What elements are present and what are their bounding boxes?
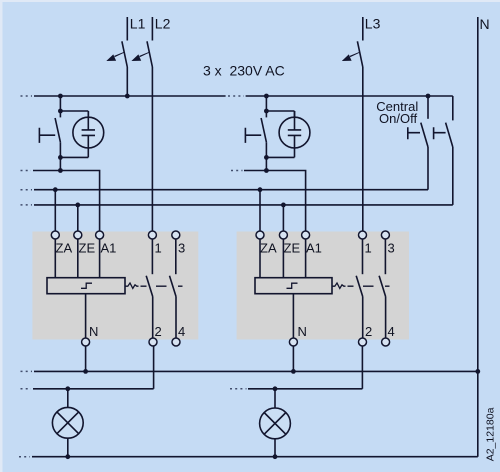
svg-text:On/Off: On/Off bbox=[379, 111, 417, 126]
node ZE right bbox=[281, 203, 286, 208]
central button S3 blade bbox=[421, 123, 428, 147]
switch blade L3 bbox=[357, 41, 362, 67]
wire lamp E2 bottom lead bbox=[274, 439, 276, 457]
node bus/S1 bbox=[58, 94, 63, 99]
lamp E1 bbox=[52, 407, 83, 438]
terminal N right bbox=[289, 338, 297, 346]
terminal wire A1-K1 bbox=[99, 239, 101, 278]
glow lamp H1 bbox=[73, 117, 104, 148]
contact 3-4 right lower bbox=[385, 297, 387, 339]
contact 3-4 right blade bbox=[379, 276, 386, 297]
node lamp E1 bottom bbox=[65, 454, 70, 459]
wire L2 down to terminal 1 bbox=[151, 67, 153, 231]
wire N terminal right to N bus bbox=[292, 346, 294, 371]
node S1 bottom bbox=[58, 155, 63, 160]
wire ZE drop left bbox=[77, 205, 79, 231]
node lamp E2 top bbox=[273, 386, 278, 391]
contact 3-4 left lower bbox=[175, 297, 177, 339]
wire S4 to ZE line bbox=[452, 147, 454, 205]
terminal ZA right bbox=[256, 231, 264, 239]
contact 3-4 right upper bbox=[384, 239, 386, 274]
wire corner bus to central button 2 bbox=[452, 96, 454, 120]
mechanical link K1 bbox=[126, 283, 183, 288]
terminal wire ZA-K1 bbox=[54, 239, 56, 278]
wire lamp E1 bottom lead bbox=[67, 438, 69, 457]
actuation arrow L2 bbox=[131, 52, 149, 61]
pushbutton S1 actuator bbox=[39, 128, 55, 143]
terminal 3 right bbox=[381, 231, 389, 239]
svg-text:A1: A1 bbox=[306, 241, 322, 256]
labels bbox=[130, 15, 490, 78]
wire lamp line left bbox=[33, 388, 154, 390]
wire lamp branch top S1 bbox=[60, 111, 88, 130]
wire N terminal left to N bus bbox=[85, 346, 87, 371]
node ZA left bbox=[53, 187, 58, 192]
svg-text:ZA: ZA bbox=[56, 241, 73, 256]
lamp E1 cross bbox=[57, 412, 79, 434]
terminal 2 left bbox=[149, 338, 157, 346]
node S1/A1 line bbox=[58, 168, 63, 173]
dashes ZE line left bbox=[21, 204, 33, 206]
wire lamp branch bottom S1 bbox=[60, 156, 88, 158]
svg-text:L3: L3 bbox=[365, 15, 381, 31]
terminal 4 left bbox=[172, 338, 180, 346]
terminal 3 left bbox=[172, 231, 180, 239]
terminal wire ZE-K1 bbox=[77, 239, 79, 278]
node bus/S2 bbox=[264, 94, 269, 99]
wire lamp E1 top lead bbox=[67, 389, 69, 408]
coil box K2 bbox=[255, 278, 332, 294]
contact 1-2 right lower bbox=[362, 297, 364, 339]
wire L3 top bbox=[362, 17, 364, 41]
svg-text:ZE: ZE bbox=[284, 241, 301, 256]
terminal ZE right bbox=[279, 231, 287, 239]
node lamp E2 bottom bbox=[273, 454, 278, 459]
wire L1 to bus bbox=[126, 67, 128, 96]
node S1 top bbox=[58, 109, 63, 114]
pushbutton S1 blade bbox=[55, 118, 60, 142]
wire S2 lower bbox=[265, 142, 267, 170]
svg-text:A1: A1 bbox=[101, 241, 117, 256]
wire phase bus segment 1 bbox=[34, 95, 226, 97]
wire ZE line bbox=[34, 204, 453, 206]
node ZA right bbox=[258, 187, 263, 192]
svg-text:2: 2 bbox=[155, 324, 162, 339]
lamp E2 cross bbox=[264, 413, 286, 435]
terminal 1 left bbox=[148, 231, 156, 239]
contact 1-2 right upper bbox=[362, 239, 364, 274]
svg-text:1: 1 bbox=[365, 241, 372, 256]
node bus/L1 bbox=[125, 94, 130, 99]
central button S3 drop bbox=[427, 96, 429, 119]
svg-text:3 x 230V AC: 3 x 230V AC bbox=[203, 63, 285, 79]
wire terminal 2 left drop bbox=[153, 346, 155, 389]
wire lamp return bus bbox=[32, 456, 478, 458]
pushbutton S2 blade bbox=[261, 118, 266, 142]
wire K2 to N terminal bbox=[292, 294, 294, 338]
dashes bus left bbox=[21, 95, 33, 97]
module enclosure M2 (right relay unit) bbox=[237, 232, 409, 340]
contact 1-2 left upper bbox=[151, 239, 153, 274]
dashes A1 line mid bbox=[231, 170, 243, 172]
contact 1-2 left lower bbox=[152, 297, 154, 339]
impulse symbol K1 bbox=[81, 283, 92, 288]
svg-text:N: N bbox=[89, 324, 98, 339]
wire L3 down to terminal 1 bbox=[362, 67, 364, 231]
node N bus left bbox=[83, 369, 88, 374]
node N bus / N line bbox=[475, 369, 480, 374]
svg-text:4: 4 bbox=[388, 324, 395, 339]
svg-text:2: 2 bbox=[365, 324, 372, 339]
lamp E2 bbox=[260, 408, 291, 439]
dashes return bus left bbox=[19, 456, 30, 458]
wire A1 line right bbox=[244, 171, 306, 232]
dashes bus mid bbox=[228, 95, 244, 97]
svg-text:3: 3 bbox=[388, 241, 395, 256]
dashes lamp line left bbox=[21, 388, 32, 390]
svg-text:1: 1 bbox=[155, 241, 162, 256]
wire S3 to ZA line bbox=[427, 147, 429, 190]
svg-text:3: 3 bbox=[178, 241, 185, 256]
wire S1 lower bbox=[59, 142, 61, 170]
wire phase bus segment 2 bbox=[246, 95, 453, 97]
wire A1 line left bbox=[33, 171, 100, 232]
actuation arrow L1 bbox=[106, 52, 124, 61]
node S2 bottom bbox=[264, 155, 269, 160]
impulse symbol K2 bbox=[287, 283, 298, 288]
terminal ZA left bbox=[51, 231, 59, 239]
dashes ZA line left bbox=[21, 189, 33, 191]
node bus/central bbox=[426, 94, 431, 99]
svg-text:ZA: ZA bbox=[260, 241, 277, 256]
wire K1 to N terminal bbox=[85, 294, 87, 338]
svg-text:L1: L1 bbox=[130, 15, 146, 31]
pushbutton S2 actuator bbox=[245, 128, 261, 143]
glow lamp H1 electrodes bbox=[82, 111, 95, 157]
terminal 4 right bbox=[382, 338, 390, 346]
dashes A1 line left bbox=[21, 170, 32, 172]
wire lamp line right bbox=[248, 388, 362, 390]
wire N bus bbox=[34, 370, 478, 372]
svg-text:ZE: ZE bbox=[79, 241, 96, 256]
mechanical link K2 bbox=[333, 283, 390, 288]
glow lamp H2 bbox=[279, 117, 310, 148]
contact 3-4 left blade bbox=[170, 276, 177, 297]
wire ZA line bbox=[34, 189, 428, 191]
contact 1-2 right blade bbox=[356, 276, 363, 297]
glow lamp H2 electrodes bbox=[288, 111, 301, 157]
terminal A1 left bbox=[96, 231, 104, 239]
terminal A1 right bbox=[302, 231, 310, 239]
wire lamp branch bottom S2 bbox=[266, 156, 294, 158]
node N bus right bbox=[291, 369, 296, 374]
wire L2 top bbox=[151, 17, 153, 41]
wire ZA drop right bbox=[259, 190, 261, 231]
switch blade L1 bbox=[122, 41, 127, 67]
coil box K1 bbox=[47, 278, 125, 294]
switch blade L2 bbox=[147, 41, 152, 67]
wire N vertical bbox=[477, 17, 479, 457]
svg-text:N: N bbox=[298, 324, 307, 339]
continuation dashes bbox=[19, 96, 247, 457]
terminal 2 right bbox=[359, 338, 367, 346]
wire lamp E2 top lead bbox=[274, 389, 276, 408]
node S2/A1 line bbox=[264, 168, 269, 173]
terminal wire ZA-K2 bbox=[259, 239, 261, 278]
wire lamp branch top S2 bbox=[266, 111, 294, 130]
terminal N left bbox=[82, 338, 90, 346]
module enclosure M1 (left relay unit) bbox=[32, 232, 198, 340]
node ZE left bbox=[75, 203, 80, 208]
node S2 top bbox=[264, 109, 269, 114]
dashes N bus left bbox=[21, 370, 33, 372]
central button S3 actuator bbox=[408, 127, 420, 139]
contact 1-2 left blade bbox=[146, 276, 153, 297]
wire pushbutton S2 drop bbox=[265, 96, 267, 117]
svg-text:L2: L2 bbox=[155, 15, 171, 31]
terminal circles bbox=[51, 231, 389, 346]
wire L1 top bbox=[126, 17, 128, 41]
wire terminal 2 right drop bbox=[361, 346, 363, 389]
terminal wire ZE-K2 bbox=[282, 239, 284, 278]
node lamp E1 top bbox=[65, 386, 70, 391]
contact 3-4 left upper bbox=[175, 239, 177, 274]
svg-text:4: 4 bbox=[178, 324, 185, 339]
dashes lamp line mid bbox=[230, 388, 247, 390]
wire ZA drop left bbox=[54, 190, 56, 231]
wire ZE drop right bbox=[282, 205, 284, 231]
central button S4 actuator bbox=[434, 127, 446, 139]
actuation arrow L3 bbox=[342, 52, 360, 61]
terminal 1 right bbox=[359, 231, 367, 239]
svg-text:A2_12180a: A2_12180a bbox=[485, 407, 497, 461]
svg-text:N: N bbox=[480, 16, 490, 32]
wire pushbutton S1 drop bbox=[59, 96, 61, 117]
terminal ZE left bbox=[74, 231, 82, 239]
central button S4 blade bbox=[446, 123, 453, 147]
terminal wire A1-K2 bbox=[305, 239, 307, 278]
